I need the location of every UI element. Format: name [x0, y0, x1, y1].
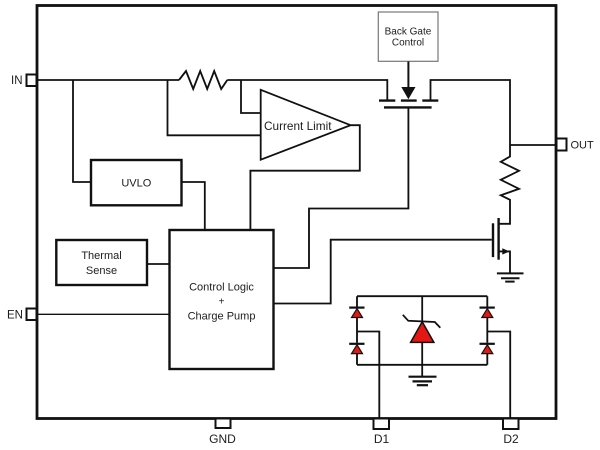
pin tab IN — [27, 75, 37, 87]
diode DL1 — [352, 309, 363, 318]
UVLO block — [91, 160, 182, 205]
wire Back Gate Control to pass FET body (arrow) — [407, 62, 409, 89]
svg-text:Charge Pump: Charge Pump — [188, 311, 256, 323]
wire ESD left tap to D1 — [357, 332, 379, 419]
svg-text:Control Logic: Control Logic — [189, 282, 254, 294]
diode DR1 — [482, 309, 493, 318]
resistor R2 (output discharge, vertical) — [499, 145, 520, 224]
svg-text:UVLO: UVLO — [121, 178, 151, 190]
wire ESD bottom rail — [357, 364, 487, 366]
transistor Q2 gate bar — [492, 223, 494, 257]
zener Z1 — [411, 322, 434, 343]
arrowhead into body — [401, 87, 415, 99]
transistor Q1 pass FET source bar — [379, 99, 395, 101]
svg-text:Control: Control — [392, 38, 424, 49]
diode DL2 cathode bar — [349, 343, 364, 345]
Back Gate Control block — [378, 12, 438, 61]
wire Control Logic to Q2 gate — [274, 240, 492, 304]
wire IN main rail — [36, 79, 179, 81]
svg-text:Sense: Sense — [86, 265, 117, 277]
wire zener stem top — [421, 296, 423, 321]
wire R1 to pass FET source — [227, 80, 387, 100]
transistor Q1 drain bar — [422, 99, 438, 101]
wire ESD top rail — [357, 295, 487, 297]
wire ESD right tap to D2 — [487, 332, 510, 419]
wire Q1 drain to OUT node — [431, 80, 511, 145]
transistor Q2 source wire — [499, 251, 510, 272]
svg-text:+: + — [219, 297, 225, 308]
wire sense right (after R1) to amp upper input — [241, 80, 260, 113]
wire UVLO to Control Logic — [182, 182, 205, 229]
transistor Q2 channel bar — [497, 218, 499, 260]
op-amp U1 Current Limit — [261, 90, 351, 160]
wire Thermal Sense to Control Logic — [147, 263, 170, 265]
svg-text:GND: GND — [209, 432, 236, 446]
ground (ESD center) — [409, 377, 437, 386]
wire EN to Control Logic — [36, 313, 170, 315]
resistor R1 (current sense, horizontal) — [179, 71, 227, 89]
pin tab GND — [216, 419, 231, 429]
Control Logic + Charge Pump block — [170, 230, 274, 369]
diode DR2 cathode bar — [480, 343, 495, 345]
pin tab EN — [27, 309, 37, 321]
wire ESD left branch — [356, 296, 358, 365]
diode DL2 — [352, 345, 363, 354]
wire Q1 gate down — [274, 107, 408, 268]
svg-text:Thermal: Thermal — [81, 250, 121, 262]
diode DR2 — [482, 345, 493, 354]
wire OUT node to OUT pin — [510, 144, 557, 146]
diode DL1 cathode bar — [349, 307, 364, 309]
pin tab OUT — [557, 139, 567, 151]
zener Z1 cathode bar — [403, 315, 441, 328]
diode DR1 cathode bar — [480, 307, 495, 309]
wire sense left (before R1) to amp lower input — [168, 80, 261, 135]
svg-text:D2: D2 — [503, 432, 519, 446]
wire zener stem bottom — [421, 342, 423, 376]
outer IC boundary — [37, 6, 556, 419]
ground (under Q2) — [497, 273, 524, 281]
transistor Q2 source arrow — [502, 248, 509, 254]
transistor Q1 body bar — [401, 99, 417, 101]
svg-text:Back Gate: Back Gate — [385, 27, 432, 38]
svg-text:IN: IN — [11, 75, 23, 87]
pin tab D1 — [374, 419, 390, 430]
wire Current Limit output to Control Logic — [250, 125, 359, 229]
svg-text:D1: D1 — [374, 432, 390, 446]
wire ESD right branch — [486, 296, 488, 365]
wire IN to UVLO — [73, 80, 91, 182]
Thermal Sense block — [56, 240, 147, 285]
svg-text:EN: EN — [7, 310, 23, 322]
node IN/UVLO junction — [72, 80, 74, 81]
svg-text:OUT: OUT — [571, 140, 595, 152]
transistor Q1 gate line — [384, 106, 432, 108]
svg-text:Current Limit: Current Limit — [264, 119, 332, 133]
pin tab D2 — [503, 419, 519, 430]
